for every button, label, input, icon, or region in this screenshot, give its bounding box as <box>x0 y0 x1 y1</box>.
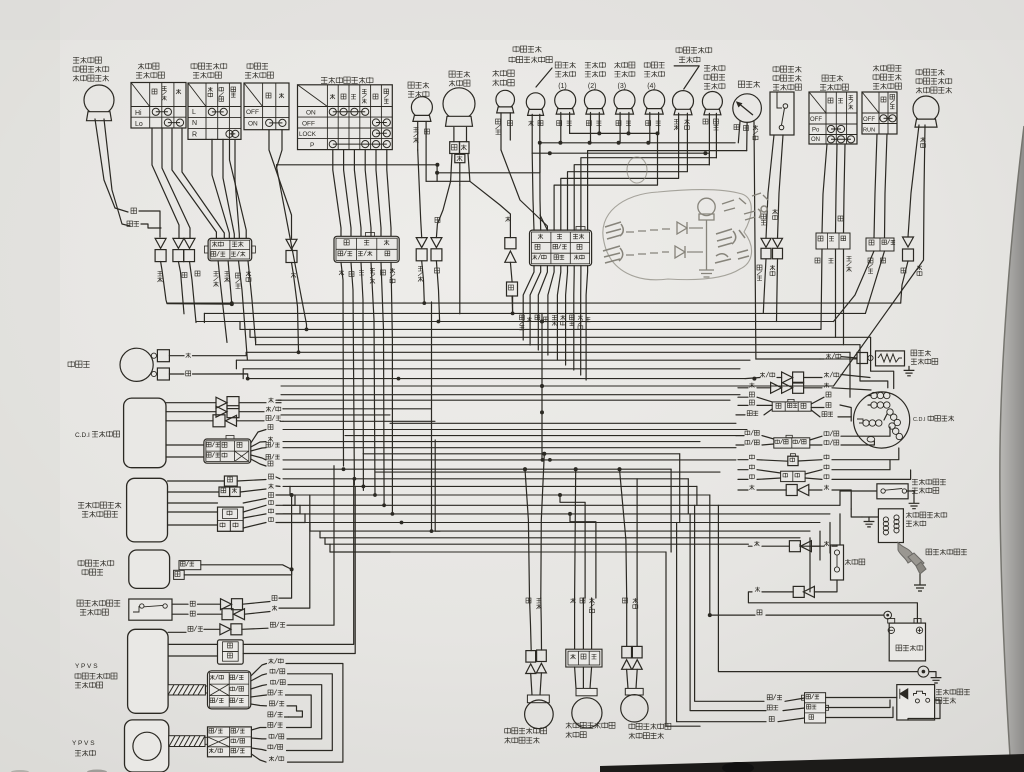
ignition coil ground <box>869 516 878 518</box>
rear flasher left lamp <box>531 674 532 696</box>
svg-text:Po: Po <box>812 128 820 134</box>
pencil sketch blob outline <box>603 190 752 280</box>
stair line y164.8 <box>277 164 438 166</box>
wire label brown oil <box>508 121 513 126</box>
bus field horizontals <box>167 302 901 304</box>
switch dimmer table <box>131 83 186 129</box>
CDI wire3 black/white <box>166 420 213 422</box>
svg-text:OFF: OFF <box>810 117 822 123</box>
engine stop wires lower <box>834 251 875 322</box>
lamp front flasher left <box>84 85 114 115</box>
fan wires into center connector <box>532 153 534 230</box>
ignition coil box <box>878 509 903 543</box>
magneto coil 3 <box>887 409 893 415</box>
rear flasher right connectors <box>626 598 628 646</box>
pencil oval small <box>627 157 647 183</box>
main switch drop wires <box>333 150 341 237</box>
wire labels meter (3) <box>616 121 621 126</box>
label front flasher lamp right <box>916 70 922 74</box>
label oil level gauge <box>936 689 942 695</box>
midfield verticals <box>434 440 436 531</box>
wires below marker diode <box>422 261 425 303</box>
YPVS motor box <box>125 720 169 772</box>
YPVS motor hatched cable <box>169 736 205 747</box>
wire yellow hl <box>470 181 511 237</box>
svg-text:C.D.I: C.D.I <box>913 417 926 423</box>
label high beam indicator <box>513 47 519 51</box>
YPVS hatched cable <box>168 685 205 695</box>
pencil lamp sketch <box>698 198 715 215</box>
label water temp gauge <box>738 81 744 87</box>
nested right verticals <box>666 552 700 726</box>
magneto small oval <box>867 437 875 443</box>
connector single diode left <box>155 238 166 248</box>
label neutral switch <box>912 479 918 485</box>
label rear stop switch <box>77 600 83 606</box>
rear lamp feeders <box>525 469 530 598</box>
wire labels front stop <box>761 214 766 219</box>
left stair verticals <box>203 313 205 322</box>
engine stop connector <box>866 238 894 251</box>
pencil text earth <box>715 250 749 263</box>
svg-text:(2): (2) <box>588 83 597 90</box>
magneto coil 2 <box>871 402 877 408</box>
pencil text dark-green right <box>716 229 745 247</box>
flasher indicator lamp <box>673 91 694 112</box>
wire labels meter (1) <box>557 121 562 126</box>
YPVS motor wire labels <box>268 712 273 717</box>
dark band bottom edge <box>600 754 1024 772</box>
red wire to fuse top <box>800 545 820 547</box>
pencil diode 2 <box>675 246 685 258</box>
marker lamp pins <box>417 122 419 151</box>
orange wire <box>749 485 754 490</box>
svg-text:Y P V S: Y P V S <box>72 740 95 747</box>
switch flasher table <box>188 83 241 139</box>
wire label black engine <box>838 216 843 221</box>
YPVS motor block wires right <box>251 728 266 731</box>
wire label pink <box>291 273 296 278</box>
meter blue bus <box>570 132 658 134</box>
wires below center connector <box>523 266 534 340</box>
label flasher switch <box>191 64 197 68</box>
yellow diode pair <box>749 383 754 388</box>
label spark plug <box>926 549 932 555</box>
pencil wire to lamp 1 <box>689 227 703 229</box>
svg-text:OFF: OFF <box>302 121 315 128</box>
black/white wire ypvs top <box>168 631 186 633</box>
horn switch drop wires <box>269 130 292 239</box>
conn wires right <box>811 397 824 404</box>
label flasher relay <box>78 561 84 565</box>
svg-text:Lo: Lo <box>135 121 143 128</box>
CDI fan labels <box>268 425 273 430</box>
header labels dimmer <box>152 89 157 94</box>
svg-text:ON: ON <box>811 137 820 143</box>
white/red white/green connector <box>745 431 750 434</box>
pointer flasher lamp <box>674 66 699 89</box>
marker wire to diode <box>418 150 422 238</box>
dimmer switch drop wires <box>152 128 179 238</box>
switch horn table <box>244 83 289 130</box>
brown line to conn <box>749 392 754 397</box>
label front stop switch <box>773 67 779 71</box>
flasher ind pins <box>678 113 680 172</box>
white connectors <box>749 455 754 459</box>
spark plug <box>898 543 916 564</box>
neutral brown drop <box>708 153 710 165</box>
rect wire black <box>168 480 225 482</box>
rect wire brown2 <box>168 502 218 504</box>
label thermo unit <box>911 350 917 356</box>
CDI magneto circle <box>854 392 910 448</box>
front stop wires <box>766 135 774 238</box>
label engine stop switch <box>873 65 879 71</box>
label oil warning lamp <box>493 70 499 76</box>
wr wg wires right <box>810 436 822 440</box>
connector double diode <box>173 238 184 248</box>
switch main table <box>298 85 393 150</box>
wire label dark green ffr <box>921 137 926 142</box>
stair line y172.8 <box>437 143 540 173</box>
label main switch <box>321 77 327 83</box>
headlight connector black-yellow <box>450 142 460 154</box>
front stop switch box <box>770 92 794 135</box>
CDI block wires left <box>166 444 204 446</box>
pencil dashes 2 <box>626 252 669 255</box>
pencil diode 1 <box>677 222 687 234</box>
rear stop switch box <box>129 599 172 620</box>
thermo wire <box>820 358 824 360</box>
svg-text:R: R <box>192 132 197 139</box>
rear flasher left connectors <box>530 598 532 651</box>
label front flasher lamp left <box>73 57 79 63</box>
connector pink diode <box>286 239 297 249</box>
label meter lamp (1) <box>555 62 561 68</box>
horn brown wire <box>169 373 184 375</box>
right feeders <box>871 337 894 388</box>
CDI block fan right <box>251 430 266 444</box>
green wire drop <box>459 185 461 314</box>
marker black wire <box>425 137 427 181</box>
wire labels below marker diode <box>418 266 423 271</box>
wire labels ffr lower <box>901 268 906 273</box>
CDI connector block <box>204 439 251 463</box>
ground bus wire <box>718 505 918 671</box>
pencil dashes 1 <box>626 229 670 232</box>
magneto coil 4 <box>889 423 895 429</box>
wire labels flasher ind <box>674 119 679 124</box>
rect wire brown-red <box>168 491 220 493</box>
connector block main switch <box>334 236 399 262</box>
label headlight <box>449 71 455 77</box>
pencil wire to lamp 2 <box>687 251 703 253</box>
wire label black marker <box>425 129 430 134</box>
CDI wire2 red/black <box>166 411 216 413</box>
ignition coil windings <box>883 517 888 522</box>
horn pink wire <box>169 355 184 357</box>
headlight yellow connector pair <box>505 238 516 249</box>
label fuse <box>845 559 851 565</box>
wire label black <box>131 208 137 214</box>
engine stop table <box>862 92 897 134</box>
headlight wires down <box>451 154 452 182</box>
light switch wires lower <box>821 249 822 329</box>
front flasher right lamp <box>913 96 939 122</box>
rear flasher right labels wires <box>623 598 628 603</box>
light switch connector <box>816 233 850 249</box>
YPVS motor connector block <box>208 727 252 757</box>
wires below double diode <box>178 262 184 314</box>
oil level gauge diode <box>900 689 908 699</box>
wire dark brown below <box>161 262 232 305</box>
label meter lamp (3) <box>615 62 621 68</box>
header labels engine sw <box>881 97 886 102</box>
flasher relay connector <box>179 561 201 570</box>
meter lamp (3) pins <box>619 113 621 143</box>
wire label blue/red marker <box>414 127 419 132</box>
magneto coil left <box>863 420 869 426</box>
light switch wires <box>822 144 827 233</box>
wire pink below <box>292 263 299 352</box>
bus y153 <box>532 152 709 154</box>
spark plug ground <box>914 580 926 591</box>
svg-text:OFF: OFF <box>863 117 875 123</box>
wire labels below block <box>214 271 219 276</box>
pencil text dark-brown <box>605 222 623 239</box>
wire labels black black <box>182 273 187 278</box>
label light switch <box>822 75 828 81</box>
wire labels below center conn <box>520 315 525 320</box>
oil level wire labels left <box>767 695 772 700</box>
wire labels neutral <box>703 119 708 124</box>
wire below small box <box>511 296 514 314</box>
oil warning lamp <box>496 90 515 109</box>
header labels flasher sw <box>208 87 213 92</box>
wire front flasher left pins <box>95 119 128 212</box>
rect white wires <box>168 511 218 513</box>
light switch table <box>809 92 857 144</box>
wire labels yellow black hb <box>529 121 534 126</box>
neutral pins <box>708 113 710 164</box>
wire black to diode <box>139 211 160 237</box>
connector block dimmer-flasher <box>208 238 252 260</box>
horn connectors <box>157 350 169 362</box>
label dimmer switch <box>138 63 144 69</box>
stair line y181.3 <box>451 180 470 182</box>
meter lamp (4) <box>644 90 665 111</box>
wire labels meter (4) <box>646 121 651 126</box>
stair drop 276 <box>277 165 307 328</box>
high beam pins <box>531 114 533 153</box>
label meter lamp (2) <box>585 62 591 68</box>
label ignition coil <box>906 512 912 518</box>
meter lamp (3) <box>614 90 635 111</box>
wires below block <box>218 261 227 343</box>
dark backdrop right of paper edge <box>0 0 1 1</box>
YPVS motor jog wire <box>285 716 289 718</box>
water temp pins <box>738 122 740 143</box>
YPVS control box <box>128 629 169 713</box>
thermo unit connector <box>857 353 868 364</box>
marker lamp <box>411 97 432 118</box>
label horn <box>68 362 74 367</box>
long vertical headlight green <box>431 302 433 531</box>
water temp gauge <box>733 94 762 123</box>
wire label dark brown2 <box>158 271 163 276</box>
meter lamp (1) pins <box>560 113 562 143</box>
small box mid <box>507 282 518 296</box>
rear flasher left labels wires <box>526 598 531 603</box>
header labels horn sw <box>266 93 271 98</box>
wires below main block <box>341 262 344 466</box>
tail stop lamp <box>575 667 576 688</box>
battery ground terminal <box>918 666 929 677</box>
center connector block <box>530 230 592 266</box>
oil level gauge float <box>914 691 926 696</box>
horn circle <box>120 348 153 381</box>
thermo unit resistor <box>876 351 905 366</box>
oil level gauge box <box>897 685 935 720</box>
oil level wires mid <box>785 698 805 701</box>
neutral switch box <box>877 484 908 499</box>
label rear flasher lamp left <box>505 729 511 733</box>
red wire fuse bottom loop <box>814 580 837 592</box>
fuse box <box>831 545 844 580</box>
YPVS control connector block <box>208 671 251 709</box>
rear flasher right lamp <box>627 669 628 688</box>
CDI unit box <box>124 398 166 468</box>
svg-text:RUN: RUN <box>863 128 875 134</box>
YPVS conn black-brown <box>218 640 244 664</box>
rect white block <box>218 507 244 531</box>
pencil text flasher lamp <box>722 193 768 220</box>
svg-text:LOCK: LOCK <box>299 131 317 138</box>
thermo ground <box>904 366 915 376</box>
header labels light sw <box>828 98 833 103</box>
svg-text:(4): (4) <box>647 83 656 90</box>
svg-text:P: P <box>310 142 314 149</box>
meter lamp (2) pins <box>590 113 592 143</box>
neutral lamp <box>702 92 722 112</box>
front stop wires lower <box>763 259 766 314</box>
wire headlight-label to diode <box>436 181 450 237</box>
YPVS control block wires right <box>251 664 267 677</box>
magneto coil top <box>871 392 877 398</box>
wire dark brown to diode <box>141 224 161 228</box>
label tail stop lamp <box>566 722 572 728</box>
wire label yellow hl <box>506 217 511 222</box>
neutral switch wires <box>840 490 877 492</box>
tail stop connector <box>574 598 576 649</box>
svg-text:N: N <box>192 120 197 127</box>
svg-text:OFF: OFF <box>246 109 259 116</box>
header labels main sw <box>330 94 335 99</box>
black skyblue brown connector <box>772 402 811 411</box>
flasher relay box <box>129 550 170 588</box>
connector double diode marker <box>416 238 427 248</box>
headlight connector green <box>455 154 465 162</box>
label neutral lamp <box>704 65 710 71</box>
label marker lamp <box>408 82 414 88</box>
meter black bus <box>541 142 735 144</box>
wire label dark brown <box>127 221 133 227</box>
rectifier box <box>127 478 168 542</box>
YPVS conn wires <box>168 643 217 645</box>
label horn switch <box>247 64 253 68</box>
meter lamp (1) <box>555 90 576 111</box>
label battery <box>896 645 902 651</box>
headlight lamp <box>443 88 475 120</box>
battery box <box>889 623 925 661</box>
wire label black above <box>435 217 440 222</box>
oil gauge wires <box>826 697 897 699</box>
ignition primary wire <box>851 509 862 517</box>
svg-text:ON: ON <box>306 110 316 117</box>
svg-text:L: L <box>192 109 196 116</box>
engine stop wires <box>874 134 877 238</box>
svg-text:Y P V S: Y P V S <box>75 663 98 670</box>
wire labels water temp <box>734 125 739 130</box>
label rectifier <box>78 502 84 508</box>
water temp needle <box>738 103 753 115</box>
pencil ground <box>699 270 714 277</box>
black wire battery <box>710 614 755 616</box>
pencil text dark-green <box>603 246 623 263</box>
meter lamp (4) pins <box>649 113 651 143</box>
front flasher right wires <box>908 125 919 237</box>
oil warning wire diagonal to pin3 <box>501 150 547 230</box>
wire label black/red oil <box>496 119 501 124</box>
pointer line high beam <box>536 68 552 87</box>
svg-text:Hi: Hi <box>135 110 142 117</box>
rear stop wires <box>172 603 188 605</box>
YPVS nested link wires <box>286 664 343 763</box>
high beam indicator lamp <box>526 93 545 112</box>
wire labels below main block <box>339 270 344 275</box>
meter lamp (2) <box>584 90 605 111</box>
tail stop labels wires <box>571 598 576 603</box>
oil level connector <box>805 693 826 723</box>
svg-text:C.D.I: C.D.I <box>75 432 90 439</box>
label meter lamp (4) <box>644 63 650 67</box>
wire labels meter (2) <box>586 121 591 126</box>
label rear flasher lamp right <box>629 724 635 728</box>
black skyblue left labels <box>749 400 754 405</box>
label flasher lamp top <box>676 48 682 52</box>
svg-text:(3): (3) <box>618 83 627 90</box>
YPVS control wire labels <box>269 659 274 664</box>
ffr wire down <box>901 261 908 303</box>
svg-text:ON: ON <box>248 121 258 128</box>
CDI wire1 yellow <box>166 402 216 404</box>
red/black diode pair <box>760 372 765 377</box>
flasher switch drop wires <box>212 139 229 238</box>
flasher relay wires <box>201 565 292 570</box>
front flasher right diode <box>903 237 914 247</box>
oil warning pins <box>500 113 502 150</box>
headlight black wire diagonal <box>453 126 455 128</box>
svg-text:(1): (1) <box>558 83 567 90</box>
